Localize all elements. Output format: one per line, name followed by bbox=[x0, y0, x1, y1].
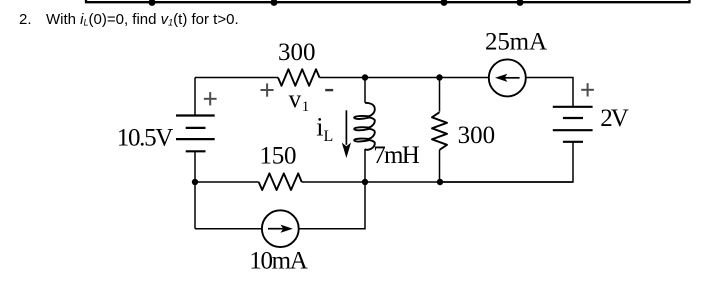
current source I2 10mA circle bbox=[262, 210, 299, 247]
node E (right 300 bottom junction) bbox=[437, 179, 443, 185]
inductor L1 7mH coil bbox=[354, 103, 375, 150]
arrow of 25mA source (pointing left) bbox=[504, 77, 520, 79]
svg-text:L: L bbox=[324, 128, 334, 145]
svg-text:2.: 2. bbox=[19, 11, 32, 28]
wire: top remnant bus line from previous figure bbox=[86, 0, 690, 2]
middle wire left segment bbox=[195, 181, 259, 183]
resistor R3 150 zigzag bbox=[259, 173, 302, 190]
plus sign of v1 bbox=[261, 83, 274, 96]
node B (top of right 300 resistor) bbox=[436, 74, 442, 80]
middle wire right segment bbox=[302, 181, 573, 183]
resistor R2 300: bottom lead bbox=[439, 150, 441, 182]
node A (top of inductor) bbox=[362, 74, 368, 80]
wire: from 2V battery bottom down and left to node E bbox=[440, 142, 573, 182]
battery V2 2V plates bbox=[553, 107, 593, 142]
svg-text:300: 300 bbox=[278, 39, 316, 66]
node dot on top bus (x=274) bbox=[271, 0, 278, 6]
svg-text:2V: 2V bbox=[600, 105, 629, 132]
svg-text:150: 150 bbox=[260, 142, 297, 169]
resistor R1 300 (top) zigzag bbox=[278, 69, 320, 86]
wire: bottom loop left vertical + bottom wire to 10mA source bbox=[195, 228, 262, 230]
plus sign of 2V battery bbox=[581, 83, 594, 96]
wire: top-right segment and corner down to 2V battery bbox=[526, 78, 573, 107]
wire: left vertical from battery bottom through node C to bottom-left corner bbox=[194, 151, 196, 228]
svg-text:10.5V: 10.5V bbox=[117, 125, 174, 152]
svg-text:7mH: 7mH bbox=[373, 142, 420, 169]
svg-text:With iL(0)=0, find v1(t) for t: With iL(0)=0, find v1(t) for t>0. bbox=[46, 11, 239, 28]
plus sign of 10.5V battery bbox=[204, 92, 217, 105]
svg-text:300: 300 bbox=[458, 122, 496, 149]
minus sign of v1 bbox=[325, 89, 333, 91]
node D (inductor bottom junction) bbox=[362, 179, 368, 185]
resistor R2 300 zigzag bbox=[432, 112, 447, 150]
node C (battery bottom junction) bbox=[192, 179, 198, 185]
current source I1 25mA circle bbox=[489, 59, 526, 96]
wire: bottom wire right segment and vertical up to node D bbox=[299, 182, 365, 229]
node dot on top bus (x=520) bbox=[517, 0, 524, 6]
inductor L1 7mH: bottom lead bbox=[364, 149, 366, 182]
wire: left vertical from top wire to 10.5V battery bbox=[194, 78, 196, 116]
node dot on top bus (x=152) bbox=[149, 0, 156, 6]
resistor R2 300 (right, vertical): top lead bbox=[439, 78, 441, 112]
current arrow iL bbox=[345, 110, 347, 145]
arrow of 10mA source (pointing right) bbox=[268, 228, 284, 230]
svg-text:1: 1 bbox=[302, 99, 310, 115]
svg-text:i: i bbox=[316, 113, 323, 142]
inductor L1 7mH: top lead bbox=[364, 78, 366, 103]
battery V1 10.5V plates bbox=[176, 116, 215, 152]
wire: top middle segment (resistor to current source) bbox=[320, 77, 490, 79]
svg-text:10mA: 10mA bbox=[249, 248, 307, 275]
svg-text:v: v bbox=[289, 86, 302, 113]
svg-text:25mA: 25mA bbox=[485, 29, 547, 56]
wire: top-left horizontal segment bbox=[195, 77, 278, 79]
node dot on top bus (x=444) bbox=[441, 0, 448, 6]
